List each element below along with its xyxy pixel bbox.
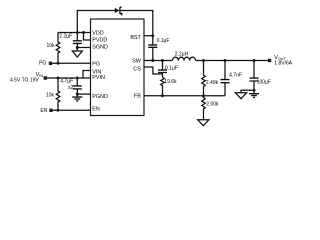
wire CS stub [144, 67, 163, 74]
svg-text:VDD: VDD [92, 30, 103, 36]
terminal EN [49, 109, 52, 112]
capacitor C1 2.2uF [73, 33, 82, 48]
svg-text:PG: PG [39, 61, 46, 67]
diode D1 schottky [115, 7, 122, 15]
svg-text:SW: SW [132, 58, 142, 64]
svg-text:1.8V/6A: 1.8V/6A [274, 60, 292, 66]
svg-text:BST: BST [130, 35, 141, 41]
svg-text:2.2µH: 2.2µH [175, 52, 189, 58]
node input cap junction [76, 77, 79, 80]
wire boost top rail from VDD node to BST node [77, 11, 153, 36]
resistor 10k PG pull-up [56, 33, 60, 64]
ground power ground at output cap [249, 94, 259, 98]
wire EN line [53, 109, 91, 111]
node PVDD branch junction [82, 31, 85, 34]
terminal PG [49, 62, 52, 65]
capacitor C3 0.1uF bootstrap [148, 36, 157, 61]
wire VOUT line [196, 60, 268, 62]
wire PG line [52, 62, 90, 64]
svg-text:10k: 10k [46, 93, 55, 99]
node SGND junction [76, 46, 79, 49]
node output cap junction [253, 59, 256, 62]
capacitor C4 0.1uF sense [158, 61, 167, 78]
wire BST stub [144, 35, 153, 37]
wire SGND stub [77, 47, 90, 49]
svg-text:FB: FB [134, 93, 141, 99]
wire VIN input line [47, 71, 91, 79]
node output ground junction [253, 89, 256, 92]
node divider top junction [202, 59, 205, 62]
capacitor C6 100uF output [250, 61, 259, 94]
node VDD junction [76, 31, 79, 34]
svg-text:PG: PG [92, 62, 100, 68]
node sense bottom junction [161, 94, 164, 97]
resistor 2.00k [202, 96, 206, 120]
svg-text:100µF: 100µF [257, 80, 271, 86]
node feedforward junction [224, 59, 227, 62]
resistor 2.49k [202, 61, 206, 96]
svg-text:10k: 10k [46, 43, 55, 49]
ground signal ground at SGND [72, 48, 82, 58]
svg-text:EN: EN [40, 108, 47, 114]
svg-text:EN: EN [92, 106, 100, 112]
svg-text:SGND: SGND [92, 45, 108, 51]
node PGND junction [76, 93, 79, 96]
node BST junction [151, 34, 154, 37]
op-amp U1 regulator IC box [91, 19, 145, 116]
svg-text:PGND: PGND [92, 94, 108, 100]
terminal VIN [44, 76, 47, 79]
svg-text:x2: x2 [68, 85, 74, 91]
svg-text:2.49k: 2.49k [206, 80, 219, 86]
wire FB line [144, 95, 225, 97]
svg-text:2.00k: 2.00k [206, 101, 219, 107]
svg-text:4.5V TO 19V: 4.5V TO 19V [10, 77, 39, 83]
svg-text:4.7nF: 4.7nF [229, 73, 242, 79]
capacitor C2 4.7uF x2 [73, 78, 82, 94]
wire ground tie [241, 90, 254, 93]
inductor L1 2.2uH [173, 57, 196, 60]
svg-text:0.1µF: 0.1µF [165, 66, 178, 72]
svg-text:PVIN: PVIN [92, 75, 105, 81]
wire SW line [144, 60, 173, 62]
wire PVDD branch [84, 33, 91, 41]
ground signal ground at divider [198, 120, 209, 126]
node SW sense junction [161, 59, 164, 62]
wire PGND stub [77, 93, 90, 95]
svg-text:19.6k: 19.6k [164, 79, 177, 85]
resistor 10k EN pull-up [56, 78, 60, 110]
node PG pull-up junction [57, 62, 60, 65]
svg-text:2.2µF: 2.2µF [59, 33, 72, 39]
node SW bootstrap junction [151, 59, 154, 62]
svg-text:0.1µF: 0.1µF [157, 38, 170, 44]
svg-text:4.7µF: 4.7µF [60, 79, 73, 85]
capacitor C5 4.7nF feedforward [221, 61, 230, 96]
node EN pull-up junction [57, 77, 60, 80]
ground power ground at input cap [72, 94, 82, 101]
node divider mid junction [202, 94, 205, 97]
terminal VOUT [268, 59, 271, 62]
node EN junction [57, 109, 60, 112]
resistor 19.6k [161, 78, 165, 96]
svg-text:CS: CS [133, 67, 141, 73]
ground signal ground tie [235, 93, 246, 99]
svg-text:PVDD: PVDD [92, 38, 107, 44]
wire VDD rail [58, 32, 91, 34]
